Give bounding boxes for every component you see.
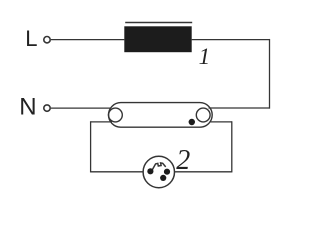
wire L terminal to ballast xyxy=(51,39,124,41)
starter wire bottom right xyxy=(175,171,232,173)
lamp left electrode circle xyxy=(109,108,123,122)
starter body circle xyxy=(143,156,174,187)
terminal N circle xyxy=(44,105,50,111)
svg-text:L: L xyxy=(25,26,37,51)
starter wire left horizontal from lamp left electrode xyxy=(91,121,112,123)
starter bottom pin dot xyxy=(160,175,166,181)
starter wire right horizontal to lamp right electrode xyxy=(210,121,232,123)
svg-text:N: N xyxy=(19,94,36,121)
fluorescent lamp tube outline xyxy=(109,103,213,128)
ballast iron core line xyxy=(125,22,192,24)
svg-text:1: 1 xyxy=(199,44,211,69)
lamp right electrode circle xyxy=(196,108,210,122)
starter left electrode dot xyxy=(147,168,153,174)
wire lamp right electrode to right vertical xyxy=(209,107,270,109)
svg-text:2: 2 xyxy=(176,145,190,176)
wire N terminal to lamp left electrode xyxy=(51,107,111,109)
wire ballast to top-right corner xyxy=(192,39,270,41)
lamp junction dot xyxy=(189,119,195,125)
starter right electrode dot xyxy=(164,169,170,175)
ballast body (inductor 1) xyxy=(124,26,191,52)
starter wire bottom left xyxy=(91,171,144,173)
starter wire right vertical xyxy=(231,122,233,172)
terminal L circle xyxy=(44,37,50,43)
starter wire left vertical xyxy=(90,122,92,172)
wire right vertical (ballast down to lamp) xyxy=(269,40,271,108)
starter bimetal contact xyxy=(152,163,165,170)
